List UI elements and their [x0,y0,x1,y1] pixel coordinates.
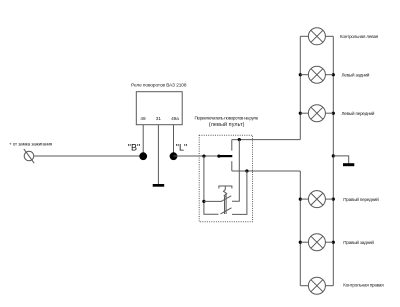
svg-text:"В": "В" [128,143,140,153]
svg-text:Контрольная правая: Контрольная правая [343,282,384,287]
wire pin 49 to node B [142,125,144,154]
lamp HL3 Левый передний [300,105,333,122]
svg-text:Контрольная левая: Контрольная левая [340,34,379,39]
junction left bus lamp3 [299,112,302,115]
junction right bus lamp4 [332,198,335,201]
spring anchor T-bar [219,186,232,189]
wire junction down to lever terminal 2 [232,171,247,214]
wire upper contact to left lamp bus [232,139,300,141]
switch movable contact (thick) [219,155,232,157]
lamp HL4 Правый передний [300,191,333,208]
junction at movable contact [217,155,220,158]
node B [139,152,147,160]
svg-text:Правый задний: Правый задний [343,239,374,245]
lever shaft [225,193,227,214]
svg-text:Переключатель поворотов на рул: Переключатель поворотов на руле [194,115,258,120]
svg-text:+ от замка зажигания: + от замка зажигания [9,142,53,147]
junction on upper wire [238,138,241,141]
svg-text:49а: 49а [171,116,179,121]
svg-text:Реле поворотов ВАЗ 2108: Реле поворотов ВАЗ 2108 [131,82,187,87]
svg-text:(левый пульт): (левый пульт) [209,121,245,128]
lamp HL6 Контрольная правая [300,277,333,294]
junction left bus lamp2 [299,73,302,76]
junction on common wire [202,155,205,158]
node L [170,152,178,160]
switch enclosure (dashed) [199,135,252,222]
wire node L to switch common [174,155,220,157]
lever arm 2 [221,208,232,214]
junction right bus ground tap [332,154,335,157]
junction left bus lamp4 [299,198,302,201]
right lamp bus [332,36,334,285]
junction left bus lamp5 [299,241,302,244]
lamp HL2 Левый задний [300,66,333,83]
junction right bus lamp3 [332,112,335,115]
ground (relay pin 31) [153,184,165,187]
wire junction down to lever terminal 1 [232,140,239,202]
switch fixed contact upper [231,140,233,151]
junction right bus lamp2 [332,73,335,76]
svg-text:31: 31 [156,116,162,121]
switch fixed contact lower [231,161,233,171]
lever arm 1 [221,196,231,202]
relay K1 body [136,92,182,125]
junction right bus lamp5 [332,241,335,244]
svg-text:49: 49 [140,116,146,121]
wire lower contact to right section [232,170,300,172]
ground (lamp return) bar [343,163,354,166]
wire ignition to node B [34,155,143,157]
wire switch pivot branch [204,156,219,214]
junction at pivot [202,200,205,203]
lamp HL5 Правый задний [300,234,333,251]
left lamp bus top section [299,36,301,139]
wire pin 31 to ground [157,125,159,185]
connector X1 + от замка зажигания [24,149,34,163]
spring [224,186,227,197]
junction on lower wire [245,169,248,172]
ground (lamp return) wire [333,156,348,163]
wire pin 49a to node L [173,125,175,154]
wire pivot to lever arm 1 [204,200,222,202]
left lamp bus bottom section [299,171,301,286]
svg-text:Правый передний: Правый передний [343,196,379,202]
svg-text:Левый задний: Левый задний [342,71,370,77]
svg-text:Левый передний: Левый передний [342,110,375,116]
svg-text:"L": "L" [176,143,187,153]
lamp HL1 Контрольная левая [300,28,333,45]
